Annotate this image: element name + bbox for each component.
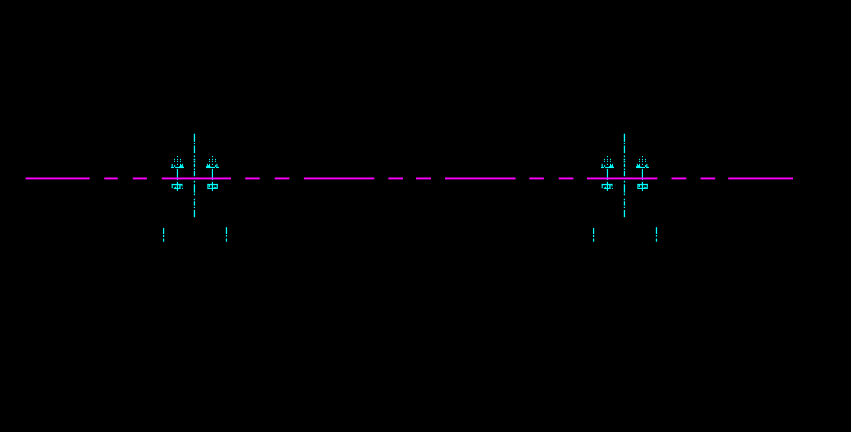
valve V2 valve body box	[207, 184, 217, 189]
valve V3 valve body box	[602, 184, 613, 189]
valve V2 label glyphs and underline	[206, 164, 219, 168]
valve assembly 1 centerline (cyan dash-dot)	[194, 134, 196, 218]
valve V2 stem (vertical riser through pipeline)	[212, 169, 213, 191]
valve assembly 2 centerline (cyan dash-dot)	[624, 134, 626, 218]
valve V4 label glyphs and underline	[636, 164, 649, 168]
joint mark left of assembly 2	[593, 228, 594, 242]
pipeline main line (magenta phantom linetype)	[26, 177, 793, 179]
valve V4 stem (vertical riser through pipeline)	[642, 169, 643, 191]
valve V3 label text dots	[604, 156, 611, 165]
valve V1 valve body box	[172, 184, 183, 189]
valve V4 label text dots	[639, 156, 646, 165]
valve V3 label glyphs and underline	[601, 164, 614, 168]
valve V1 label glyphs and underline	[171, 164, 184, 168]
joint mark right of assembly 1	[226, 227, 227, 242]
valve V1 label text dots	[174, 156, 181, 165]
valve V4 valve body box	[637, 184, 647, 189]
valve V1 stem (vertical riser through pipeline)	[177, 169, 178, 191]
joint mark right of assembly 2	[656, 227, 657, 242]
valve V3 stem (vertical riser through pipeline)	[607, 169, 608, 191]
joint mark left of assembly 1	[163, 228, 164, 242]
valve V2 label text dots	[209, 156, 216, 165]
